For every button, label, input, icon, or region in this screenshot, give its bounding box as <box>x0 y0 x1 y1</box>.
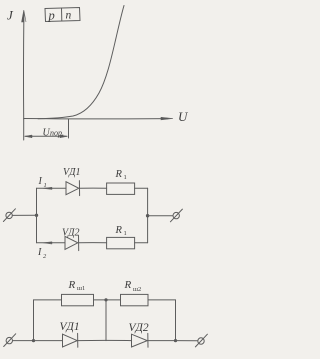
wire: right junction to terminal <box>148 215 173 217</box>
wire: right junction to terminal <box>176 340 198 342</box>
resistor R2 <box>107 237 135 248</box>
wire: Rsh1 to middle junction <box>94 299 121 301</box>
node: left junction dot <box>35 214 38 217</box>
svg-text:n: n <box>66 10 72 22</box>
wire: middle vertical connector <box>105 300 107 341</box>
node: right junction dot <box>146 214 149 217</box>
svg-text:1: 1 <box>124 230 127 237</box>
svg-text:1: 1 <box>44 182 47 189</box>
diode VD1 <box>66 182 79 195</box>
wire: bottom rail left to VD1 <box>34 340 63 342</box>
svg-text:R: R <box>68 279 76 291</box>
threshold extension line right (tick under curve foot) <box>68 119 70 138</box>
svg-text:VД2: VД2 <box>129 322 149 334</box>
wire: Rsh2 to right corner <box>148 299 176 301</box>
wire: diode VD2 to R2 <box>79 242 107 244</box>
wire: R2 to right vertical <box>135 242 148 244</box>
svg-text:I: I <box>38 176 43 187</box>
wire: bottom branch left segment <box>37 242 66 244</box>
svg-text:пор.: пор. <box>50 129 64 138</box>
wire: left vertical riser <box>33 300 35 341</box>
svg-text:VД1: VД1 <box>63 167 80 178</box>
diode I-V curve <box>38 6 124 119</box>
wire: top rail to Rsh1 <box>34 299 62 301</box>
wire: R1 to right vertical <box>135 187 148 189</box>
diode VD2 <box>65 236 78 249</box>
wire: VD2 to right junction <box>148 340 176 342</box>
svg-text:VД2: VД2 <box>62 228 79 239</box>
resistor R1 <box>107 183 135 194</box>
wire: top branch left segment <box>37 187 67 189</box>
p-n junction box <box>45 8 80 22</box>
wire: terminal to left junction <box>13 340 34 342</box>
svg-text:VД1: VД1 <box>60 321 80 333</box>
svg-text:I: I <box>37 247 42 258</box>
wire: left terminal to split node <box>12 214 36 216</box>
right terminal <box>198 338 204 344</box>
horizontal axis (voltage) <box>24 118 168 120</box>
svg-text:R: R <box>124 279 132 291</box>
vertical axis (current) <box>22 14 24 119</box>
svg-text:U: U <box>178 109 189 124</box>
current arrow I1 <box>43 187 52 189</box>
node: middle junction dot <box>104 298 107 301</box>
diode VD1 <box>63 334 78 347</box>
diode VD2 <box>132 334 148 347</box>
node: left junction dot <box>32 339 35 342</box>
right terminal <box>173 212 179 218</box>
wire: left vertical between branches <box>36 188 38 243</box>
wire: diode VD1 to R1 <box>80 187 107 189</box>
p-n box divider <box>61 8 63 21</box>
svg-text:ш2: ш2 <box>133 286 141 293</box>
wire: right vertical between branches <box>147 188 149 243</box>
resistor Rsh1 <box>62 294 94 305</box>
wire: VD1 to VD2 <box>78 339 132 341</box>
wire: right vertical connector <box>175 300 177 341</box>
svg-text:R: R <box>115 225 123 236</box>
svg-text:ш1: ш1 <box>77 285 85 292</box>
svg-text:R: R <box>115 169 123 180</box>
left terminal <box>6 337 12 343</box>
resistor Rsh2 <box>121 294 149 305</box>
current arrow I2 <box>43 242 52 244</box>
dimension arrow Uthr <box>25 135 67 137</box>
svg-text:1: 1 <box>124 174 127 181</box>
node: right junction dot <box>174 339 177 342</box>
svg-text:p: p <box>48 9 55 23</box>
threshold extension line left <box>23 119 25 140</box>
left terminal <box>6 212 12 218</box>
